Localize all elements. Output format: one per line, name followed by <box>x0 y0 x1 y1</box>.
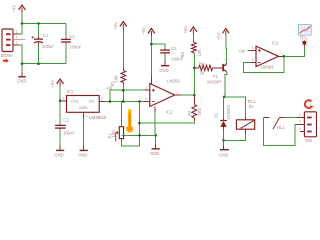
op-amp IC2B LM393 buffer <box>251 41 284 70</box>
node junction bottom rail C1 <box>37 62 40 65</box>
svg-text:+5V: +5V <box>50 80 55 88</box>
svg-text:GND: GND <box>219 152 228 157</box>
wire contact left pin loop to SW pin2 <box>263 118 297 146</box>
svg-text:2: 2 <box>16 36 18 40</box>
wire contact arm to SW pin1 <box>280 117 285 119</box>
wire coil bottom to gnd rail <box>224 133 246 141</box>
wire opamp gnd pin to rail <box>154 112 157 136</box>
wire V+ down to opamp <box>150 36 152 77</box>
wire connector pin3 to ground rail <box>18 45 22 64</box>
wire R3 bottom to output node <box>193 68 195 95</box>
svg-text:GND: GND <box>150 151 159 156</box>
node junction feedback <box>138 122 141 125</box>
svg-text:+5V: +5V <box>113 22 118 30</box>
svg-text:10K: 10K <box>197 49 202 57</box>
svg-text:GND: GND <box>159 68 168 73</box>
resistor R2 feedback <box>187 95 202 121</box>
supply +5V arrow above LM35 <box>50 79 64 88</box>
supply +5V arrow top-left <box>12 5 26 13</box>
test point TP1 <box>300 36 308 46</box>
wire gnd rail mid <box>122 134 156 136</box>
node junction VO corner <box>109 100 112 103</box>
resistor R1 15K <box>110 29 126 90</box>
node junction top rail x1 <box>21 22 24 25</box>
svg-text:1N4004: 1N4004 <box>226 105 231 120</box>
node junction top rail C1 <box>37 22 40 25</box>
svg-text:LM393: LM393 <box>261 64 274 69</box>
capacitor C1 100uF <box>32 24 55 64</box>
svg-text:+VS: +VS <box>71 99 79 104</box>
svg-text:TP1: TP1 <box>300 36 308 41</box>
wire LM35 VO to rails <box>105 101 145 103</box>
node junction output <box>193 94 196 97</box>
wire R1 column down to rail2 <box>122 90 124 101</box>
op-amp IC2A LM393 <box>144 79 181 115</box>
svg-text:1: 1 <box>176 91 178 95</box>
wire emitter to +5V <box>225 35 228 63</box>
node junction VS pin <box>59 100 62 103</box>
svg-text:15K: 15K <box>114 75 119 83</box>
node junction minus net <box>138 100 141 103</box>
svg-text:D1: D1 <box>214 112 219 118</box>
svg-text:2K2: 2K2 <box>197 107 202 115</box>
svg-text:VO: VO <box>89 99 95 104</box>
thermometer icon <box>126 111 133 133</box>
svg-text:100nF: 100nF <box>63 131 75 136</box>
node junction gnd drop <box>154 134 157 137</box>
svg-text:LM35DZ: LM35DZ <box>89 115 107 120</box>
wire AN to + input <box>247 49 250 51</box>
potentiometer P1 <box>108 102 140 146</box>
capacitor C2 100nF <box>61 24 82 64</box>
wire opamp output <box>182 94 195 96</box>
node junction D1 bottom <box>222 139 225 142</box>
svg-text:C3: C3 <box>63 118 69 123</box>
wire LM35 gnd pin down <box>83 117 85 145</box>
wire bottom rail left section <box>22 63 66 65</box>
supply +5V arrow above T1 <box>216 29 229 41</box>
svg-text:100nF: 100nF <box>69 45 81 50</box>
svg-text:2: 2 <box>146 97 148 101</box>
svg-text:DC9V: DC9V <box>1 53 13 58</box>
svg-text:IC2: IC2 <box>166 109 173 114</box>
ground GND under C4 <box>159 60 169 73</box>
svg-text:R2: R2 <box>187 110 192 116</box>
resistor R4 1K <box>194 61 222 75</box>
node junction C4 tap <box>150 43 153 46</box>
svg-text:6: 6 <box>252 58 254 62</box>
supply +5V arrow above R3 <box>183 26 197 34</box>
svg-text:3: 3 <box>299 127 301 131</box>
wire +5V to LM35 VS and C3 <box>59 87 61 125</box>
svg-text:1: 1 <box>86 114 88 118</box>
svg-text:5: 5 <box>252 46 254 50</box>
svg-text:C1: C1 <box>43 33 49 38</box>
heater load icon <box>305 100 314 108</box>
ground GND under C3 <box>55 145 65 157</box>
svg-text:C2: C2 <box>69 34 75 39</box>
svg-text:C4: C4 <box>171 46 177 51</box>
wire connector pin1 to +5V rail <box>18 24 22 35</box>
node junction bottom rail gnd <box>21 62 24 65</box>
wire collector rail to relay <box>224 97 245 117</box>
svg-text:+5V: +5V <box>141 27 146 35</box>
svg-text:GND: GND <box>17 79 26 84</box>
svg-text:GND: GND <box>78 153 87 158</box>
svg-text:IC1: IC1 <box>67 89 74 94</box>
capacitor C4 100nF <box>151 44 183 61</box>
scope icon TP1 <box>299 25 312 36</box>
svg-text:7: 7 <box>280 52 282 56</box>
DC input arrow icon <box>3 59 9 63</box>
svg-text:1: 1 <box>16 30 18 34</box>
relay coil RL1 5V <box>236 99 256 133</box>
node junction R4 tap <box>193 67 196 70</box>
node junction P1 loop <box>138 134 141 137</box>
ground GND relay <box>219 140 229 157</box>
svg-text:10K: 10K <box>111 130 116 138</box>
svg-text:1: 1 <box>299 113 301 117</box>
connector X1 DC9V <box>1 29 26 58</box>
svg-text:+5V: +5V <box>216 32 221 40</box>
node junction output buffer <box>283 55 286 58</box>
svg-text:2N2907: 2N2907 <box>207 79 222 84</box>
diode D1 1N4004 <box>214 97 231 140</box>
svg-text:2: 2 <box>299 120 301 124</box>
svg-text:3: 3 <box>146 86 148 90</box>
svg-text:3: 3 <box>63 97 65 101</box>
svg-text:5V: 5V <box>249 104 254 109</box>
relay contact RL1 <box>264 118 286 130</box>
wire feedback loop <box>244 56 284 72</box>
svg-text:+5V: +5V <box>12 5 17 13</box>
wire minus net down to feedback and gnd rail <box>139 102 141 136</box>
svg-text:AN: AN <box>239 48 245 53</box>
svg-text:100uF: 100uF <box>42 44 54 49</box>
svg-text:3: 3 <box>16 41 18 45</box>
transistor T1 2N2907 <box>207 63 227 84</box>
wire collector down <box>224 72 227 97</box>
capacitor C3 100nF <box>55 118 75 146</box>
supply +5V arrow opamp V+ <box>141 27 155 36</box>
svg-text:LM393: LM393 <box>167 79 180 84</box>
temperature sensor IC1 LM35DZ <box>62 89 107 120</box>
svg-text:R4: R4 <box>199 61 205 66</box>
ground GND under opamp <box>150 135 160 156</box>
ground GND left <box>17 64 26 84</box>
supply +5V arrow above R1 <box>113 22 127 30</box>
resistor R3 10K <box>180 34 202 68</box>
svg-text:+5V: +5V <box>183 26 188 34</box>
wire +5V rail top-left <box>22 13 66 24</box>
svg-text:R3: R3 <box>180 51 185 57</box>
node junction R1 bottom on AN rail <box>122 89 125 92</box>
svg-text:GND: GND <box>55 153 64 158</box>
connector SW <box>297 112 317 143</box>
svg-text:RL1: RL1 <box>277 125 285 130</box>
ground GND under LM35 <box>78 145 88 157</box>
node junction collector <box>223 96 226 99</box>
node junction R1 rail2 <box>122 100 125 103</box>
svg-text:GND: GND <box>79 105 88 110</box>
svg-text:2: 2 <box>101 97 103 101</box>
svg-text:SW: SW <box>305 138 312 143</box>
svg-text:1K: 1K <box>199 71 204 76</box>
svg-text:IC2: IC2 <box>272 41 279 46</box>
wire output to TP1 <box>284 46 305 56</box>
wire R2 bottom to minus net <box>140 121 195 123</box>
